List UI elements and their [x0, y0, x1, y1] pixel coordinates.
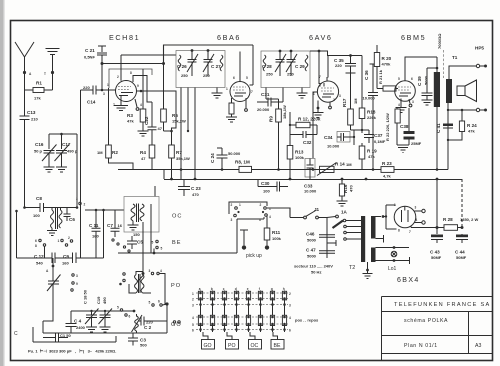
- svg-text:15k,2W: 15k,2W: [172, 119, 186, 124]
- pickup switch contacts: [235, 207, 238, 210]
- wire (plate to IF1): [121, 54, 176, 56]
- svg-text:4: 4: [269, 215, 271, 219]
- svg-text:C19: C19: [96, 296, 101, 304]
- IF1 primary winding: [178, 55, 181, 71]
- svg-text:7000/3Ω: 7000/3Ω: [437, 33, 442, 49]
- svg-text:6: 6: [129, 315, 131, 319]
- capacitor C23: [178, 179, 190, 196]
- capacitor C43 (electrolytic): [431, 235, 443, 238]
- antenna coil L1: [51, 208, 53, 211]
- svg-text:C14: C14: [87, 100, 96, 105]
- svg-text:C1 50: C1 50: [60, 333, 71, 338]
- capacitor C32: [290, 125, 317, 138]
- svg-text:C 26: C 26: [177, 64, 187, 69]
- OC coil shield box: [124, 197, 159, 233]
- svg-text:R16: R16: [343, 184, 348, 193]
- svg-text:470: 470: [192, 192, 199, 197]
- capacitor C41 (electrolytic): [443, 124, 453, 127]
- svg-text:220k: 220k: [367, 115, 377, 120]
- svg-text:C46: C46: [306, 232, 315, 237]
- capacitor C21: [98, 46, 106, 52]
- capacitor C5: [127, 236, 137, 249]
- svg-text:0,5NF: 0,5NF: [84, 55, 95, 60]
- svg-text:1M: 1M: [346, 162, 352, 167]
- node: [60, 133, 63, 136]
- pickup switch loop: [229, 202, 267, 214]
- svg-text:100k: 100k: [295, 155, 305, 160]
- node: [187, 130, 189, 132]
- svg-text:C 23: C 23: [191, 186, 201, 191]
- svg-text:h: h: [283, 287, 285, 291]
- svg-text:C 24: C 24: [210, 153, 215, 163]
- wire (box2 bottom taps): [266, 88, 302, 103]
- wire (mains taps): [346, 221, 361, 240]
- wire (AVC line): [102, 63, 162, 65]
- wire (osc row): [118, 252, 237, 254]
- svg-text:3: 3: [76, 197, 78, 201]
- svg-text:3: 3: [415, 206, 417, 210]
- wire (osc grid rail): [80, 90, 82, 258]
- svg-text:470: 470: [349, 185, 354, 192]
- svg-text:c: c: [223, 287, 225, 291]
- svg-text:PO: PO: [228, 343, 236, 349]
- wire (grid drop): [318, 51, 320, 84]
- svg-text:540: 540: [36, 261, 43, 266]
- svg-text:4: 4: [160, 269, 162, 273]
- wire (R18 feed): [361, 56, 363, 109]
- svg-text:C38: C38: [400, 124, 409, 129]
- wire (tuning gang top): [49, 133, 77, 135]
- tube 6BA6: [230, 82, 250, 102]
- svg-text:A3: A3: [475, 343, 481, 349]
- svg-text:BE: BE: [274, 343, 281, 349]
- wire (HT bus): [118, 169, 448, 171]
- svg-text:T2: T2: [349, 265, 355, 271]
- anode pin contacts: [415, 211, 422, 223]
- ground: [138, 131, 149, 136]
- wire (box2 to 6AV6): [310, 51, 328, 56]
- svg-text:50.000: 50.000: [228, 151, 241, 156]
- svg-text:1: 1: [226, 87, 228, 91]
- svg-text:9: 9: [76, 282, 78, 286]
- svg-text:g: g: [271, 287, 273, 291]
- node: [101, 62, 104, 65]
- ground (earth terminal): [46, 49, 60, 73]
- svg-text:R 28: R 28: [443, 217, 453, 222]
- node dots on buses: [170, 178, 173, 181]
- svg-text:1: 1: [239, 203, 241, 207]
- speaker terminals: [476, 64, 479, 67]
- svg-text:5: 5: [192, 323, 194, 327]
- svg-text:3: 3: [339, 94, 341, 98]
- svg-text:Pu. 1 ⊢⊣ 3023 300 pF , ⊢: Pu. 1 ⊢⊣ 3023 300 pF , ⊢( 3– 420k 220Ω.: [28, 349, 116, 354]
- trimmer C27: [203, 51, 214, 76]
- wire (T1 to C43 rail): [436, 107, 438, 234]
- variable capacitor C10: [47, 275, 61, 296]
- svg-text:C32: C32: [303, 140, 312, 145]
- svg-text:C31: C31: [261, 92, 270, 97]
- svg-text:C 29: C 29: [295, 64, 305, 69]
- node: [76, 206, 79, 209]
- node: [101, 89, 104, 92]
- resistor R1: [25, 73, 53, 91]
- resistor R2: [109, 88, 134, 170]
- svg-text:6BX4: 6BX4: [397, 277, 420, 284]
- wire (grid from AVC): [250, 45, 254, 85]
- svg-text:OC: OC: [172, 214, 182, 220]
- svg-text:4: 4: [416, 218, 418, 222]
- svg-text:17k: 17k: [34, 96, 41, 101]
- svg-text:R2: R2: [112, 150, 118, 155]
- switch button BE: [273, 332, 278, 340]
- variable capacitor C18: [85, 309, 99, 328]
- svg-text:C 36: C 36: [364, 70, 369, 80]
- ground: [397, 145, 409, 153]
- svg-text:6: 6: [192, 329, 194, 333]
- IF transformer 1 box: [176, 51, 225, 88]
- svg-text:5000: 5000: [424, 75, 429, 85]
- ground: [226, 117, 237, 122]
- output transformer T1 secondary: [446, 79, 452, 103]
- svg-text:500: 500: [140, 343, 147, 348]
- svg-text:3: 3: [103, 92, 105, 96]
- svg-text:5: 5: [161, 247, 163, 251]
- svg-text:C16: C16: [35, 142, 44, 147]
- capacitor C37: [364, 130, 374, 143]
- svg-text:50 Hz: 50 Hz: [311, 270, 321, 275]
- svg-text:1: 1: [107, 83, 109, 87]
- pin stub: [245, 98, 247, 108]
- svg-text:4: 4: [289, 316, 291, 320]
- band switch contacts (BE osc): [112, 239, 114, 241]
- svg-text:47k: 47k: [368, 154, 375, 159]
- svg-text:160: 160: [62, 261, 69, 266]
- capacitor C24: [217, 148, 228, 170]
- svg-text:C30: C30: [261, 181, 270, 186]
- resistor R11: [266, 215, 268, 245]
- wire (gang right rail): [76, 134, 78, 208]
- band switch contacts (OC): [123, 246, 125, 248]
- wire (screen node row): [351, 130, 370, 133]
- svg-text:6: 6: [289, 329, 291, 333]
- wire (tube to C22 node): [133, 76, 152, 103]
- svg-text:2: 2: [192, 298, 194, 302]
- ground stub: [327, 240, 336, 246]
- tube 6BX4: [394, 206, 416, 228]
- svg-text:R1: R1: [36, 81, 42, 86]
- svg-text:10.000: 10.000: [363, 96, 376, 101]
- wire (switch row): [17, 246, 104, 258]
- node: [23, 206, 26, 209]
- svg-text:20.000: 20.000: [257, 107, 270, 112]
- svg-text:470k: 470k: [382, 62, 392, 67]
- cathode resistor: [231, 98, 233, 117]
- resistor R23: [381, 167, 394, 173]
- svg-text:6BA6: 6BA6: [217, 33, 241, 42]
- svg-text:R17: R17: [342, 98, 347, 107]
- node on box top: [191, 49, 194, 52]
- svg-text:R 14: R 14: [335, 162, 345, 167]
- svg-text:150: 150: [133, 232, 140, 237]
- cathode + ground: [114, 96, 128, 111]
- svg-text:7: 7: [409, 230, 411, 234]
- potentiometer R14: [320, 166, 335, 172]
- svg-text:C8: C8: [36, 196, 42, 201]
- capacitor C22: [148, 102, 157, 144]
- heater loop wire: [383, 205, 397, 229]
- svg-text:2: 2: [289, 292, 291, 296]
- contacts left: [123, 273, 125, 275]
- band switch contacts S1b: [72, 274, 74, 276]
- svg-text:C 44: C 44: [455, 250, 465, 255]
- switch button PO: [227, 332, 232, 340]
- resistor R12: [290, 112, 317, 145]
- svg-text:10.000: 10.000: [327, 144, 340, 149]
- svg-text:R 22 220, 1/2W: R 22 220, 1/2W: [385, 113, 390, 141]
- tube 6BM5: [395, 81, 416, 102]
- variable capacitor C17: [56, 134, 67, 167]
- svg-text:8: 8: [130, 71, 132, 75]
- resistor R4: [151, 144, 153, 170]
- svg-text:C13: C13: [27, 110, 36, 115]
- svg-text:secteur 110 ..... 240V: secteur 110 ..... 240V: [294, 264, 333, 269]
- svg-text:C 4: C 4: [74, 319, 82, 324]
- svg-text:6AV6: 6AV6: [309, 33, 332, 42]
- capacitor C4: [70, 318, 72, 333]
- svg-text:100k: 100k: [272, 236, 282, 241]
- ground: [44, 167, 55, 172]
- wire (aerial top row): [25, 207, 53, 209]
- svg-text:d: d: [235, 287, 237, 291]
- svg-text:3: 3: [149, 269, 151, 273]
- wire (osc tank top): [71, 311, 134, 318]
- svg-text:C 39: C 39: [417, 76, 422, 86]
- svg-text:3: 3: [412, 100, 414, 104]
- svg-text:R6: R6: [172, 113, 178, 118]
- svg-text:C34: C34: [324, 135, 333, 140]
- svg-text:R3: R3: [127, 113, 133, 118]
- resistor R19: [361, 143, 363, 170]
- capacitor C14: [81, 89, 103, 91]
- svg-text:R18: R18: [367, 110, 376, 115]
- svg-text:b: b: [211, 287, 213, 291]
- ground: [86, 327, 97, 332]
- svg-text:5: 5: [149, 301, 151, 305]
- trimmer C26: [187, 51, 198, 76]
- node on box2 top: [279, 50, 282, 53]
- svg-text:TELEFUNKEN FRANCE SA: TELEFUNKEN FRANCE SA: [394, 302, 491, 308]
- capacitor C8: [40, 203, 44, 212]
- svg-text:R9: R9: [269, 116, 274, 122]
- variable capacitor C19: [99, 309, 113, 328]
- svg-text:2: 2: [260, 203, 262, 207]
- svg-text:OC: OC: [251, 343, 259, 349]
- wire (cathode output): [411, 226, 462, 228]
- svg-text:T1: T1: [452, 55, 458, 60]
- svg-text:R13: R13: [295, 150, 304, 155]
- wire (box1 bottom taps): [181, 88, 217, 180]
- svg-text:4: 4: [192, 316, 194, 320]
- svg-text:50 p: 50 p: [34, 149, 43, 154]
- svg-text:1: 1: [192, 292, 194, 296]
- svg-text:5: 5: [398, 77, 400, 81]
- svg-text:5000: 5000: [307, 238, 317, 243]
- svg-text:C37: C37: [374, 133, 383, 138]
- pin stub: [329, 102, 331, 106]
- resistor R3: [142, 69, 144, 131]
- capacitor C31: [257, 98, 283, 107]
- svg-text:C7: C7: [107, 223, 113, 228]
- resistor R6: [163, 64, 165, 132]
- svg-text:3: 3: [231, 218, 233, 222]
- svg-text:18k,1W: 18k,1W: [282, 105, 287, 119]
- capacitor C3: [128, 333, 138, 346]
- dial lamp Lo1: [391, 251, 397, 257]
- scan edge strip: [0, 0, 4, 366]
- wire (PO right drop): [159, 274, 165, 305]
- svg-text:1350, 2 W: 1350, 2 W: [460, 217, 478, 222]
- svg-text:250: 250: [203, 73, 210, 78]
- svg-text:47: 47: [158, 126, 163, 131]
- svg-text:160: 160: [92, 234, 99, 239]
- svg-text:2: 2: [117, 75, 119, 79]
- svg-text:2: 2: [84, 203, 86, 207]
- antenna: [15, 42, 34, 73]
- ground: [337, 201, 348, 206]
- contacts (osc sw): [120, 309, 122, 311]
- svg-text:47k: 47k: [127, 119, 134, 124]
- ground: [56, 167, 67, 172]
- svg-text:C 18 50: C 18 50: [83, 289, 88, 304]
- pin stub: [409, 99, 410, 104]
- capacitor C7: [114, 210, 116, 228]
- svg-text:a: a: [199, 287, 201, 291]
- wire (bottom loop): [33, 295, 167, 342]
- svg-text:1M: 1M: [97, 150, 103, 155]
- wire (grid return): [313, 92, 318, 158]
- svg-text:1: 1: [58, 239, 60, 243]
- wire (to C46/C47): [319, 218, 328, 259]
- svg-text:8: 8: [35, 244, 37, 248]
- svg-text:47: 47: [141, 156, 146, 161]
- switch contacts: [152, 304, 154, 306]
- svg-text:2: 2: [333, 98, 335, 102]
- svg-text:R 23: R 23: [382, 161, 392, 166]
- svg-text:Lo1: Lo1: [388, 266, 397, 272]
- svg-text:C 2: C 2: [144, 325, 152, 330]
- resistor R7: [171, 131, 173, 179]
- resistor R18: [361, 119, 363, 131]
- svg-text:Plan N 01/1: Plan N 01/1: [404, 343, 438, 349]
- svg-text:schéma POLKA: schéma POLKA: [404, 318, 448, 324]
- resistor R16: [341, 179, 343, 201]
- wire (pickup to J1): [267, 208, 290, 218]
- svg-text:7: 7: [251, 90, 253, 94]
- svg-text:HP5: HP5: [475, 46, 484, 51]
- svg-text:R 21 1k: R 21 1k: [378, 69, 383, 84]
- wire: [52, 207, 77, 209]
- svg-text:pick up: pick up: [246, 253, 262, 259]
- svg-text:6: 6: [233, 76, 235, 80]
- switch contacts: [151, 272, 153, 274]
- svg-text:R11: R11: [272, 230, 281, 235]
- svg-text:490 p: 490 p: [67, 149, 78, 154]
- svg-text:pos . . repos: pos . . repos: [295, 318, 319, 323]
- wire (tube to R7 column): [137, 91, 177, 131]
- pickup jack terminal: [265, 245, 269, 249]
- 6AV6 cathode ground: [317, 107, 320, 110]
- ground: [100, 327, 111, 332]
- svg-text:1M: 1M: [353, 98, 358, 104]
- svg-text:2: 2: [231, 203, 233, 207]
- band switch contacts: [79, 202, 81, 204]
- output transformer T1 primary: [436, 57, 438, 72]
- wire (voice coil): [449, 66, 486, 79]
- wire (ground/return bus): [164, 179, 462, 181]
- svg-text:2: 2: [68, 236, 70, 240]
- svg-text:7: 7: [319, 75, 321, 79]
- svg-text:GO: GO: [204, 343, 212, 349]
- svg-text:220: 220: [83, 85, 90, 90]
- node A (osc): [52, 265, 55, 268]
- rectifier heater taps: [376, 217, 384, 243]
- svg-text:5: 5: [246, 76, 248, 80]
- title block: [382, 297, 493, 361]
- matrix row lines (dashed): [196, 293, 288, 330]
- svg-text:R 19: R 19: [367, 149, 377, 154]
- band switch contacts S1a: [39, 239, 41, 241]
- svg-text:4: 4: [140, 103, 142, 107]
- resistor R28: [444, 225, 458, 231]
- svg-text:250: 250: [181, 73, 188, 78]
- svg-text:9: 9: [137, 84, 139, 88]
- svg-text:C 11: C 11: [89, 223, 99, 228]
- svg-text:R 12, 220k: R 12, 220k: [298, 117, 321, 122]
- svg-text:R 20: R 20: [382, 56, 392, 61]
- OC oscillator coil: [131, 204, 135, 221]
- svg-text:C 41: C 41: [436, 123, 441, 133]
- power transformer T2 secondary: [371, 216, 376, 239]
- svg-text:C 47: C 47: [306, 248, 316, 253]
- capacitor C39: [422, 68, 438, 100]
- svg-text:1A: 1A: [341, 210, 348, 215]
- svg-text:4,7k: 4,7k: [383, 174, 392, 179]
- svg-text:C 12: C 12: [34, 254, 44, 259]
- svg-text:6: 6: [158, 300, 160, 304]
- ground: [422, 100, 433, 105]
- svg-text:R 24: R 24: [467, 123, 477, 128]
- svg-text:6: 6: [411, 77, 413, 81]
- IF1 secondary winding: [220, 55, 223, 71]
- svg-text:5000: 5000: [307, 254, 317, 259]
- svg-text:5: 5: [117, 306, 119, 310]
- resistor R21: [377, 88, 398, 90]
- tube ECH81: [116, 81, 137, 102]
- svg-text:3: 3: [192, 304, 194, 308]
- svg-text:250: 250: [287, 72, 294, 77]
- svg-text:5: 5: [152, 241, 154, 245]
- cathode ground: [396, 99, 407, 113]
- switch button GO: [203, 332, 208, 340]
- resistor R13: [289, 145, 291, 179]
- svg-text:8: 8: [398, 229, 400, 233]
- svg-text:490: 490: [102, 297, 107, 304]
- node A: [23, 71, 26, 74]
- svg-text:50MF: 50MF: [456, 255, 467, 260]
- svg-text:100: 100: [263, 189, 270, 194]
- tube 6AV6: [317, 81, 338, 102]
- svg-text:100: 100: [33, 213, 40, 218]
